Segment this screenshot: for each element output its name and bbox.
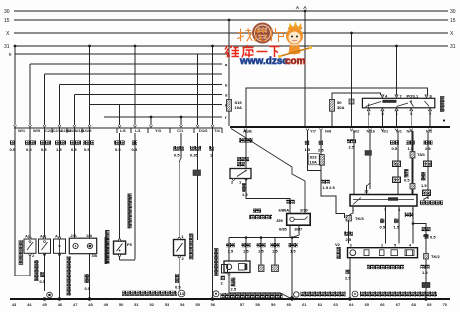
blower switch bottom wires	[349, 206, 427, 254]
wire staircase a-line	[30, 63, 222, 65]
fuse S19 symbol	[227, 99, 232, 111]
wire staircase line d	[75, 94, 223, 96]
svg-text:0.5: 0.5	[430, 235, 436, 240]
wire n2 jog	[424, 197, 428, 201]
terminal strip cell ticks	[15, 128, 222, 133]
connector diamond on x351	[349, 99, 354, 104]
wire n1 low	[397, 183, 399, 195]
wire n1 down	[397, 131, 399, 161]
svg-text:C/1: C/1	[177, 128, 184, 133]
svg-text:45: 45	[42, 302, 47, 307]
svg-text:68: 68	[411, 302, 416, 307]
mascot body	[289, 44, 301, 55]
caption ground link dashboard	[122, 291, 177, 296]
svg-text:0.5: 0.5	[115, 147, 121, 152]
svg-text:53: 53	[165, 302, 170, 307]
label pink l1	[132, 141, 137, 146]
label white/black 0.5 tk2	[422, 227, 431, 231]
wire drop C2b	[59, 85, 61, 126]
svg-text:50: 50	[119, 302, 124, 307]
AC relay contacts	[366, 100, 430, 107]
fuse 30A symbol	[330, 99, 335, 111]
label blue/yellow c2b	[55, 141, 66, 146]
svg-text:W/9: W/9	[33, 128, 41, 133]
vertical text left of F9	[105, 230, 109, 264]
svg-text:48: 48	[88, 302, 93, 307]
wire staircase line k	[90, 104, 223, 106]
svg-text:1.5: 1.5	[242, 192, 248, 197]
motor circle in resistor box	[350, 250, 356, 256]
svg-text:64: 64	[349, 302, 354, 307]
svg-text:1.5: 1.5	[272, 249, 278, 254]
svg-text:56: 56	[211, 302, 216, 307]
box pin stubs bottom left row	[45, 253, 90, 298]
wire drop C2a	[44, 74, 46, 125]
box T7	[393, 177, 401, 183]
ground circle 13	[178, 290, 185, 297]
glyph zhao	[238, 29, 253, 42]
label green 2.5 clutch gnd	[231, 278, 235, 287]
label socket 0.5 mid	[175, 274, 179, 283]
junction 31/396	[395, 45, 398, 48]
svg-text:A: A	[55, 234, 58, 239]
svg-text:0.5: 0.5	[26, 147, 32, 152]
svg-text:TK/3: TK/3	[355, 216, 364, 221]
label black/red u1	[83, 141, 94, 146]
label black/red 1.5 s23	[321, 180, 330, 184]
svg-text:J59: J59	[276, 218, 283, 223]
svg-text:52: 52	[149, 302, 154, 307]
vertical text right of t4 wire	[214, 248, 218, 276]
caption ground central electric	[360, 292, 437, 297]
label socket TK/2	[424, 234, 428, 239]
wire X bus down x351	[351, 33, 353, 126]
svg-text:N/8: N/8	[325, 129, 332, 134]
label black/yellow l6	[114, 141, 125, 146]
mystery U loop left of switch	[321, 170, 345, 218]
svg-text:60: 60	[287, 302, 292, 307]
wire staircase line b2	[60, 84, 223, 86]
label brown 2.5 resistor gnd	[346, 270, 350, 275]
label black/brown d16	[190, 146, 201, 151]
pressure switch F low	[24, 239, 36, 253]
svg-text:W/1: W/1	[18, 128, 26, 133]
svg-text:com: com	[285, 56, 306, 67]
svg-text:A/1: A/1	[25, 234, 32, 239]
watermark www.dzsc.com	[239, 56, 306, 67]
right column wires down from rail	[354, 131, 428, 201]
label battery	[239, 138, 253, 143]
wire S19 vertical	[228, 20, 230, 126]
glyph wei	[225, 46, 239, 57]
wire w1 down	[15, 133, 30, 276]
glyph xia	[270, 47, 280, 58]
svg-text:69: 69	[427, 302, 432, 307]
resistor top pin labels	[350, 243, 413, 248]
label red/white 1.5 a	[242, 243, 251, 247]
svg-text:54: 54	[180, 302, 185, 307]
glyph yi	[257, 51, 268, 53]
blower switch label	[420, 201, 443, 206]
svg-text:T1b: T1b	[424, 190, 432, 195]
rail tick forks below	[244, 129, 432, 132]
svg-text:1.5: 1.5	[394, 225, 400, 230]
blower switch box	[350, 195, 417, 207]
pin circles boxes 1-3	[29, 237, 61, 256]
AC relay bottom pin labels	[368, 111, 432, 116]
junction pin7 branch	[412, 222, 415, 225]
svg-text:2.5: 2.5	[346, 237, 352, 242]
blower switch pin labels	[352, 189, 415, 213]
wire staircase line f	[104, 116, 222, 118]
relay J59 pin stubs	[290, 209, 305, 234]
watermark stamp circle	[252, 23, 273, 44]
wire n2 down	[427, 131, 429, 161]
small box right of t4 wire	[222, 265, 228, 274]
track numbers 43-56	[12, 302, 216, 307]
svg-text:2/A: 2/A	[71, 233, 77, 238]
svg-text:59: 59	[271, 302, 276, 307]
battery rail thick	[230, 126, 450, 128]
label blue/yellow w9	[25, 141, 36, 146]
wire n16 down	[369, 131, 371, 151]
wire drop C2c	[74, 95, 76, 126]
svg-text:51: 51	[134, 302, 139, 307]
junction 31/212	[211, 45, 214, 48]
svg-text:0.5: 0.5	[175, 285, 181, 290]
vertical text under box1	[34, 260, 38, 281]
svg-text:0.5: 0.5	[404, 178, 410, 183]
label pink t4	[209, 146, 214, 151]
wire n2 low	[427, 196, 429, 200]
junction 31/89	[88, 45, 91, 48]
clutch dark bar detail	[245, 264, 248, 271]
AC relay vertical label right	[440, 96, 444, 112]
terminal labels left strip	[18, 128, 221, 133]
label red/white 1.5 c	[271, 243, 280, 247]
vertical text right of thermal switch	[189, 234, 193, 260]
wire c2b down	[59, 133, 61, 239]
label red/black 1.5 gnd	[289, 243, 298, 247]
wire thermal bottom to ground13	[178, 258, 180, 290]
AC relay coil dark	[382, 100, 396, 103]
wire tk2 down	[425, 259, 427, 299]
junction X/351	[350, 32, 353, 35]
watermark mascot	[278, 22, 312, 58]
svg-text:T10: T10	[425, 161, 433, 166]
svg-text:44: 44	[27, 302, 32, 307]
svg-text:46: 46	[58, 302, 63, 307]
wire b2 down	[353, 131, 355, 195]
svg-text:T/4: T/4	[214, 128, 221, 133]
wire 31 bus down to relay pin7	[396, 46, 398, 95]
bus 15	[14, 19, 448, 21]
svg-text:U1/5: U1/5	[83, 128, 92, 133]
vertical text left of L1 wire	[128, 194, 132, 229]
label red/black 1.5 clutchfeed	[226, 243, 235, 247]
svg-text:10A: 10A	[310, 160, 317, 165]
wire dual temp to relay 86	[246, 179, 290, 209]
dual temp switch label	[237, 157, 249, 161]
wire branch tk2	[413, 224, 426, 254]
bottom ground rail	[10, 298, 450, 300]
label black/brown c1	[173, 146, 184, 151]
distribution line y237.5	[229, 233, 299, 299]
ground junction dot	[290, 296, 294, 300]
svg-text:70: 70	[443, 302, 448, 307]
clutch assembly box bottom	[224, 261, 250, 273]
svg-text:1.5: 1.5	[290, 249, 296, 254]
svg-text:0.5: 0.5	[380, 225, 386, 230]
wire pin3	[384, 206, 386, 244]
pin circles F9	[119, 239, 121, 256]
label black/blue 2.5 b2	[347, 139, 356, 143]
wire n16 down2	[369, 155, 371, 189]
svg-text:31: 31	[450, 44, 456, 50]
caption ground sleeve1	[301, 292, 346, 297]
wire drop W1	[14, 46, 16, 125]
compressor clutch N25 box	[69, 238, 96, 254]
label red/white 1.5 dual temp	[242, 183, 246, 192]
relay label starter relay	[249, 215, 272, 220]
box T10	[424, 161, 432, 167]
track numbers 57-70	[240, 302, 448, 307]
wire drop T4 from 31	[212, 46, 214, 125]
label brown/white 1.5	[421, 265, 430, 269]
watermark zhao xin pian outline glyphs	[238, 29, 284, 42]
svg-text:30: 30	[4, 9, 10, 15]
small dot near top right rail	[443, 119, 445, 121]
wire y88 A1 to relay pin8	[246, 88, 428, 126]
AC relay bottom pin triangles	[367, 108, 431, 111]
svg-text:63: 63	[333, 302, 338, 307]
svg-text:57: 57	[240, 302, 245, 307]
connector TK5	[346, 216, 352, 222]
label brown 0.5 pin3	[380, 219, 384, 224]
switch F9 box	[114, 241, 126, 254]
svg-text:2.5: 2.5	[345, 276, 351, 281]
pressure switch F mid	[39, 239, 51, 253]
connector symbol a	[259, 265, 265, 272]
svg-text:T7: T7	[394, 177, 399, 182]
glyph xin	[255, 29, 268, 41]
label red 0.5 under box2	[40, 272, 44, 277]
ground circle mid	[213, 291, 219, 297]
svg-text:66: 66	[380, 302, 385, 307]
resistor label below	[367, 265, 404, 270]
label red 2.5 n8	[319, 141, 323, 146]
label red 1.5 y7	[305, 141, 309, 146]
svg-text:X/1: X/1	[396, 129, 403, 134]
svg-text:30: 30	[450, 9, 456, 15]
svg-text:Y/3: Y/3	[155, 128, 162, 133]
connector symbol b	[272, 265, 279, 272]
svg-text:V2: V2	[335, 242, 341, 247]
svg-text:1.5: 1.5	[228, 249, 234, 254]
wire thermal top	[179, 148, 181, 290]
label S23 10A box	[309, 154, 320, 165]
svg-text:D1/6: D1/6	[199, 128, 208, 133]
starter relay J59 box	[287, 214, 311, 226]
svg-text:2/30: 2/30	[300, 208, 309, 213]
bus 31	[14, 45, 448, 47]
svg-text:47: 47	[73, 302, 78, 307]
pin circle clutch bottom	[228, 273, 230, 275]
label red 0.5 w1	[10, 141, 15, 146]
svg-text:T2: T2	[394, 161, 399, 166]
svg-text:55: 55	[195, 302, 200, 307]
svg-text:TK/2: TK/2	[431, 254, 440, 259]
connector mid x412	[410, 184, 415, 190]
wire pin7	[412, 206, 414, 244]
label white/black pin7	[405, 213, 414, 217]
wire d16 down2	[197, 176, 199, 241]
wire drop L6 head	[119, 105, 121, 126]
resistor elements	[364, 250, 414, 256]
svg-text:30A: 30A	[337, 105, 344, 110]
wire x1 low	[412, 189, 414, 195]
svg-text:15: 15	[4, 18, 10, 24]
ground circle 2	[47, 292, 53, 298]
junction f/181	[180, 116, 183, 119]
svg-text:13: 13	[180, 291, 185, 296]
svg-text:1.5 2.5: 1.5 2.5	[323, 185, 336, 190]
wire x1 thick down	[412, 131, 414, 152]
caption ground engine bay	[221, 293, 283, 298]
svg-text:A/1: A/1	[40, 234, 47, 239]
relay label K8	[253, 209, 261, 213]
relay J59 internals	[290, 217, 308, 222]
wire drop Y3 from f	[150, 117, 152, 125]
wire c2c down	[74, 133, 76, 238]
wire staircase line c	[45, 73, 223, 75]
pin circles thermal switch	[178, 237, 180, 257]
svg-text:2.5: 2.5	[318, 148, 324, 153]
wire l1 down	[134, 133, 136, 260]
wire drop W9	[29, 64, 31, 125]
wire box3 to rail	[59, 253, 61, 298]
wire x1 mid	[412, 158, 414, 184]
svg-text:58: 58	[255, 302, 260, 307]
svg-text:8/87: 8/87	[295, 227, 304, 232]
svg-text:1.5: 1.5	[421, 183, 427, 188]
ground circle sleeve	[294, 292, 299, 297]
dark S7 box below rail	[365, 151, 372, 156]
label red/white 2.5 n2	[424, 141, 433, 145]
terminal fork symbols above strip	[14, 125, 215, 128]
temperature switch box	[54, 239, 66, 253]
svg-text:12: 12	[364, 189, 369, 194]
svg-text:0.5: 0.5	[40, 279, 46, 284]
connector dark box on d16 wire	[193, 170, 201, 176]
svg-text:1.5: 1.5	[243, 249, 249, 254]
svg-text:N/2: N/2	[426, 129, 433, 134]
mascot crown	[288, 24, 302, 30]
AC relay box	[362, 98, 434, 108]
wire n2 mid	[427, 167, 429, 191]
svg-text:65: 65	[365, 302, 370, 307]
mascot head	[286, 28, 303, 45]
blower switch inner bar	[353, 198, 414, 205]
vertical text comp1 left	[19, 240, 23, 265]
wire n1 mid	[397, 167, 399, 178]
svg-text:L/1: L/1	[135, 128, 142, 133]
svg-text:62: 62	[318, 302, 323, 307]
junction 30/305	[304, 10, 307, 13]
svg-text:1/A: 1/A	[86, 233, 92, 238]
wire pin1b	[348, 221, 350, 244]
label red/black 0.5 n1	[390, 141, 399, 145]
battery diagonal feed	[231, 129, 292, 168]
label below small box	[221, 276, 225, 281]
junction f/151	[150, 116, 153, 119]
wire u1 down	[89, 133, 91, 238]
svg-text:1.5: 1.5	[422, 270, 428, 275]
junction dots distribution	[245, 236, 294, 239]
wire c1 down	[180, 133, 182, 148]
thermal switch box mid	[174, 240, 186, 256]
label red/white 1.5 b	[257, 243, 266, 247]
bus 30	[14, 10, 448, 12]
bus X	[14, 32, 448, 34]
vertical text right of clutch	[105, 237, 109, 264]
rail junction dots	[43, 297, 428, 301]
terminal strip left	[14, 127, 222, 129]
wire drop C1 from f	[180, 117, 182, 125]
rail terminal labels	[310, 129, 433, 134]
glyph pian	[272, 29, 284, 42]
fuse S23 symbol	[320, 155, 325, 166]
vertical text beside box3 wire	[67, 257, 71, 296]
blower switch dark contact	[388, 197, 398, 200]
svg-text:0.5: 0.5	[174, 153, 180, 158]
svg-text:1.5: 1.5	[305, 147, 311, 152]
svg-text:0.5: 0.5	[392, 146, 398, 151]
wire c2a down	[44, 133, 46, 239]
label brown 0.5 clutch	[85, 274, 89, 283]
svg-text:T8/1: T8/1	[417, 152, 426, 157]
svg-text:61: 61	[302, 302, 307, 307]
label black 1.5 pin4	[394, 219, 398, 224]
svg-text:6/86A: 6/86A	[279, 208, 290, 213]
svg-text:1.5: 1.5	[258, 249, 264, 254]
connector T8/1	[410, 152, 415, 159]
svg-text:49: 49	[104, 302, 109, 307]
svg-text:www.dzsc.: www.dzsc.	[239, 56, 291, 67]
glyph ku	[242, 45, 254, 58]
wire drop D16 head	[197, 54, 199, 125]
watermark weiku red glyphs	[225, 45, 280, 58]
dual temperature switch box	[230, 169, 251, 179]
wire pin1	[349, 206, 354, 216]
wire rail down to dual temp	[245, 131, 247, 169]
wire F9 bottom loop to 31 drop	[120, 256, 135, 260]
wire d16 down	[197, 133, 199, 170]
mascot arm and staff	[279, 48, 311, 57]
svg-text:43: 43	[12, 302, 17, 307]
label black/blue 2.5 pin1	[344, 232, 353, 236]
junction 15/229	[228, 19, 231, 22]
wire 30 bus down x305	[304, 11, 306, 126]
AC relay pin wires to rail	[369, 111, 430, 126]
svg-text:POS.1: POS.1	[407, 94, 420, 99]
AC relay top pin triangles	[381, 95, 428, 98]
wire staircase b-line	[15, 53, 229, 55]
svg-text:6/85: 6/85	[279, 227, 288, 232]
svg-text:Y/7: Y/7	[310, 129, 317, 134]
wire box2 to ground2	[44, 253, 46, 291]
label white/blue c2c	[70, 141, 81, 146]
